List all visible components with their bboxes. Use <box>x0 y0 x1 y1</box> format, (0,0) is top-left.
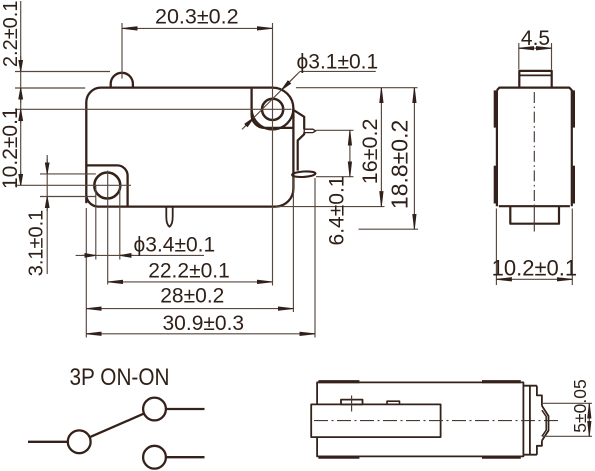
bottom cover plate <box>311 404 440 437</box>
ext line right pin (6.4 top) <box>316 129 354 131</box>
hole circle bottom-left (phi 3.4) <box>94 173 120 199</box>
rib top left <box>318 380 359 383</box>
svg-text:20.3±0.2: 20.3±0.2 <box>155 5 239 29</box>
svg-text:10.2±0.1: 10.2±0.1 <box>492 256 577 281</box>
arrow phi3.1 lower (outside on boss arc) <box>242 118 254 130</box>
side rib left lower <box>494 166 496 204</box>
dim line 2.2/10.2 vertical <box>20 1 22 186</box>
button plunger on top <box>111 73 133 88</box>
arrows 28 inside <box>86 308 293 310</box>
dim 10.2 side <box>496 209 572 286</box>
top-right hole boss outer arc <box>252 109 294 130</box>
svg-text:5±0.05: 5±0.05 <box>570 379 590 432</box>
svg-text:3.1±0.1: 3.1±0.1 <box>26 210 48 277</box>
small pad 2 <box>387 401 400 404</box>
dim 4.5 <box>519 43 552 70</box>
svg-text:22.2±0.1: 22.2±0.1 <box>148 260 230 283</box>
svg-text:16±0.2: 16±0.2 <box>358 119 382 185</box>
rib top right <box>482 380 521 383</box>
right side bracket outline <box>294 110 304 170</box>
ext vertical body left lower <box>85 208 87 338</box>
body outline <box>86 88 293 207</box>
bottom view body <box>317 382 523 456</box>
lever <box>90 414 144 438</box>
dim line phi3.4 <box>76 254 204 256</box>
svg-text:ϕ3.4±0.1: ϕ3.4±0.1 <box>134 234 216 257</box>
wire left <box>28 441 68 443</box>
ext vertical top hole center (20.3 right / 22.2 right) <box>272 23 274 286</box>
svg-text:18.8±0.2: 18.8±0.2 <box>387 120 413 209</box>
ext line right terminal top (6.4 bottom) <box>316 176 354 178</box>
top-right boss left edge <box>252 89 294 128</box>
right cap <box>523 386 542 455</box>
svg-text:30.9±0.3: 30.9±0.3 <box>163 312 245 335</box>
side rib right upper <box>573 90 575 127</box>
ext line top hole center horizontal <box>15 108 292 110</box>
wire lower right <box>166 456 204 458</box>
ext vertical lower circle right <box>119 185 121 259</box>
throw circle upper <box>143 398 166 421</box>
svg-text:28±0.2: 28±0.2 <box>160 285 224 308</box>
dim line 6.4 vertical <box>349 130 351 176</box>
dim line 3.1 vertical <box>46 155 48 274</box>
arrows 22.2 inside <box>108 281 273 283</box>
pad center tick <box>351 396 353 412</box>
arrow phi3.4 right (outside, points left) <box>120 254 133 256</box>
right small pin <box>304 129 316 132</box>
right terminal rolled top (ellipse) <box>292 171 316 178</box>
arrow 2.2 bottom (outside, points up) <box>20 88 22 103</box>
arrows: 20.3 inside <box>122 27 273 29</box>
ext line button top (2.2) <box>15 71 110 73</box>
hole circle top-right (phi 3.1) <box>262 99 283 120</box>
leader phi3.1 diagonal <box>245 71 301 127</box>
ext line pin bottom right (18.8) <box>359 228 419 230</box>
arrow 2.2 top (outside, points down) <box>20 56 22 71</box>
ext line body bottom right (16) <box>276 206 385 208</box>
ext vertical right terminal lower <box>314 178 316 338</box>
arrow 3.1 top (outside, points down) <box>46 159 48 174</box>
rib bottom right <box>482 456 521 459</box>
side rib left upper <box>494 90 496 127</box>
ext vertical lower circle left <box>95 185 97 259</box>
svg-text:4.5: 4.5 <box>521 27 550 50</box>
ext line lower circle top (3.1) <box>40 173 96 175</box>
arrow 10.2 bottom (inside, points down) <box>20 171 22 185</box>
arrow 10.2 top (inside, points up) <box>20 110 22 123</box>
svg-text:3P ON-ON: 3P ON-ON <box>70 364 170 391</box>
side center line <box>533 92 535 205</box>
ext vertical body right lower <box>292 177 294 312</box>
side button <box>519 71 551 88</box>
svg-text:ϕ3.1±0.1: ϕ3.1±0.1 <box>297 50 379 73</box>
arrows 30.9 inside <box>86 333 315 335</box>
wire upper right <box>166 408 204 410</box>
plunger nose <box>542 406 549 441</box>
bottom middle terminal pin <box>166 207 172 227</box>
arrow phi3.1 upper (outside on boss arc) <box>282 74 297 89</box>
side body outline <box>497 88 572 207</box>
svg-text:6.4±0.1: 6.4±0.1 <box>326 176 349 246</box>
arrow 3.1 bottom (outside, points up) <box>46 197 48 211</box>
bottom view center line <box>314 420 561 422</box>
common pole circle <box>68 430 91 453</box>
ext line body top left (2.2) <box>15 87 85 89</box>
svg-text:10.2±0.1: 10.2±0.1 <box>0 107 22 189</box>
side button lip line <box>519 74 551 76</box>
ext line lower circle bottom (3.1) <box>40 196 96 198</box>
ext vertical button center (20.3 left) <box>121 23 123 79</box>
button pad with center mark <box>341 400 363 405</box>
plunger nose inner <box>542 410 546 436</box>
dim line 18.8 vertical <box>413 88 415 230</box>
svg-text:2.2±0.1: 2.2±0.1 <box>0 1 22 68</box>
dim 5 bottom view <box>543 403 592 436</box>
leader phi3.1 underline <box>300 70 376 72</box>
side rib right lower <box>573 166 575 204</box>
throw circle lower <box>143 446 166 469</box>
arrow phi3.4 left (outside, points right) <box>82 254 96 256</box>
bottom-left boss <box>86 165 127 206</box>
ext line lower hole center horizontal <box>15 184 131 186</box>
dim line 16 vertical <box>380 88 382 207</box>
ext vertical lower hole center <box>107 171 109 285</box>
ext line body top right <box>296 87 418 89</box>
rib bottom left <box>318 456 359 459</box>
side bottom boss <box>510 206 559 224</box>
